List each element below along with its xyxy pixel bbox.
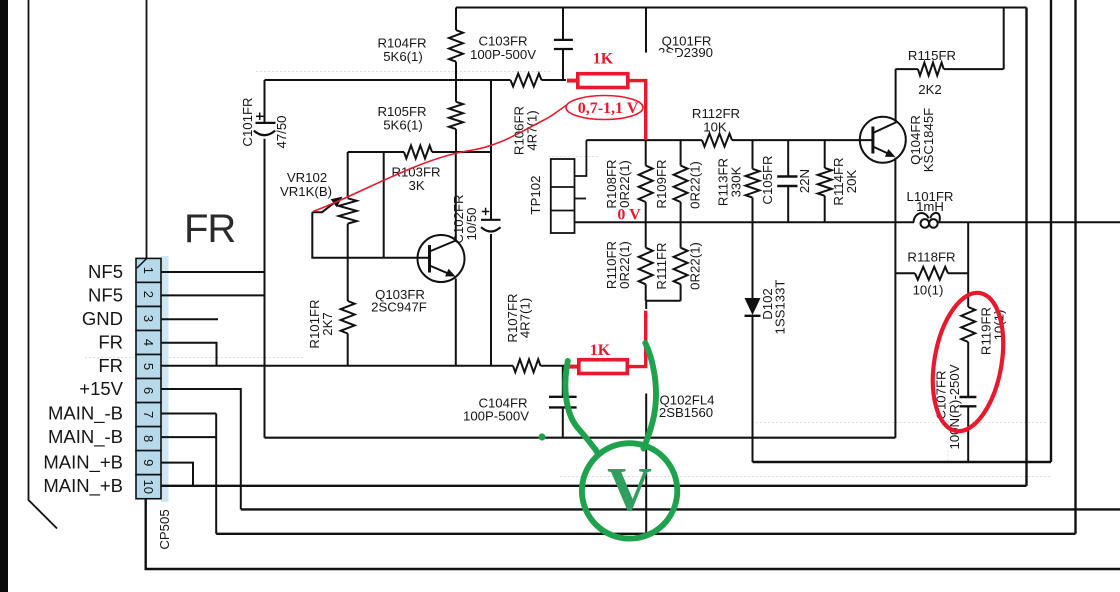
svg-text:FR: FR: [98, 332, 123, 353]
wire pin6 +15V: [161, 389, 241, 509]
wire MAIN_-B net bottom: [216, 533, 1075, 535]
svg-text:C105FR: C105FR: [760, 155, 775, 204]
inductor L101: [914, 213, 940, 228]
annotation ellipse 0,7-1,1 V: [566, 96, 643, 120]
capacitor C103: [554, 8, 573, 81]
wire pin1 NF5: [161, 271, 265, 273]
wire pin9 MAIN_+B: [161, 463, 193, 486]
svg-text:20K: 20K: [844, 170, 859, 194]
resistor R104: [449, 8, 463, 81]
wire node line y152: [348, 151, 404, 153]
capacitor C105: [777, 140, 797, 222]
border frame bar left: [0, 0, 8, 592]
annotation red wire top: [628, 81, 646, 141]
svg-text:0 V: 0 V: [617, 207, 641, 224]
wire pin5 FR line: [161, 365, 513, 367]
svg-text:4R7(1): 4R7(1): [518, 298, 533, 338]
svg-text:R118FR: R118FR: [907, 250, 955, 265]
svg-text:FR: FR: [184, 207, 235, 251]
svg-text:100P-500V: 100P-500V: [470, 47, 536, 62]
svg-text:1mH: 1mH: [916, 199, 944, 214]
svg-text:10: 10: [141, 479, 156, 493]
wire lower net to D102 C107: [753, 461, 1052, 463]
svg-text:3K: 3K: [409, 178, 425, 193]
capacitor C104: [549, 366, 577, 438]
annotation green probe lead left: [565, 361, 597, 453]
svg-text:C101FR: C101FR: [240, 97, 255, 146]
annotation voltmeter circle: [582, 443, 677, 538]
annotation white box 1: [566, 53, 677, 106]
wire pin8 MAIN_-B: [161, 436, 216, 438]
wire NF5 bottom line: [265, 437, 896, 439]
annotation pointer curve to VR102: [313, 105, 568, 212]
wire R101 to FR line: [347, 334, 349, 366]
svg-text:FR: FR: [98, 355, 123, 376]
polarity plus C101: [256, 113, 264, 121]
wire top supply bus: [456, 7, 1027, 9]
wire 0V mid rail: [575, 221, 915, 223]
svg-text:100P-500V: 100P-500V: [463, 409, 529, 424]
annotation red resistor 1K top body: [578, 74, 628, 88]
svg-text:NF5: NF5: [88, 284, 123, 305]
annotation red resistor 1K top stub: [567, 79, 577, 83]
svg-text:2K2: 2K2: [918, 82, 941, 97]
wire riser x1075: [1074, 0, 1076, 534]
resistor R119: [961, 222, 975, 397]
svg-text:9: 9: [141, 459, 156, 466]
svg-text:22N: 22N: [797, 169, 812, 193]
svg-text:R111FR: R111FR: [654, 242, 669, 289]
svg-text:2: 2: [141, 291, 156, 298]
wire R106 to annotation: [542, 79, 569, 81]
svg-text:MAIN_-B: MAIN_-B: [48, 403, 123, 425]
annotation white box 2: [568, 309, 655, 394]
svg-text:1: 1: [141, 267, 156, 274]
svg-text:VR1K(B): VR1K(B): [280, 184, 332, 199]
svg-text:5K6(1): 5K6(1): [383, 118, 423, 133]
svg-text:8: 8: [141, 435, 156, 442]
polarity plus C102: [482, 208, 490, 216]
wire NF5 top horizontal: [265, 79, 511, 81]
wire pin4 FR: [161, 343, 217, 366]
wire +15V net bottom: [241, 508, 1120, 510]
svg-text:1K: 1K: [590, 342, 611, 359]
capacitor C107: [960, 397, 977, 462]
wire base node drop: [383, 152, 385, 258]
svg-text:MAIN_+B: MAIN_+B: [43, 475, 123, 497]
annotation red resistor 1K bottom body: [579, 360, 628, 374]
svg-text:CP505: CP505: [157, 509, 172, 549]
wire pin3 GND stub: [161, 318, 218, 320]
svg-text:2K7: 2K7: [320, 312, 335, 335]
annotation red resistor 1K bottom stub: [569, 365, 578, 369]
potentiometer VR102: [312, 152, 356, 301]
resistor R109: [674, 140, 688, 222]
svg-text:VR102: VR102: [287, 170, 327, 185]
wire pin7 MAIN_-B: [161, 413, 216, 415]
wire Q104 emitter drop: [894, 158, 896, 438]
svg-text:GND: GND: [82, 308, 123, 329]
wire faint region boundary top-left: [85, 72, 1050, 477]
svg-text:0R22(1): 0R22(1): [617, 241, 632, 289]
wire shield ground: [146, 499, 1120, 569]
resistor R107: [513, 359, 541, 372]
svg-text:2SB1560: 2SB1560: [659, 405, 713, 420]
resistor R115: [895, 8, 1003, 76]
wire base bus right: [732, 139, 873, 141]
svg-text:5K6(1): 5K6(1): [383, 49, 423, 64]
wire pin2 NF5: [161, 294, 265, 296]
wire Q103 base line: [348, 257, 430, 259]
resistor R101: [341, 301, 355, 334]
resistor R105: [449, 80, 463, 152]
wire NF5 riser: [264, 80, 266, 123]
svg-text:5: 5: [141, 363, 156, 370]
diode D102: [752, 222, 754, 462]
svg-text:KSC1845F: KSC1845F: [921, 108, 936, 173]
svg-text:1SS133T: 1SS133T: [773, 280, 788, 335]
connector CP505 highlight stripe: [161, 256, 169, 502]
svg-text:10/50: 10/50: [464, 207, 479, 240]
resistor R106: [511, 74, 542, 87]
svg-text:10K: 10K: [703, 120, 727, 135]
wire MAIN_-B riser: [215, 414, 217, 534]
resistor R114: [818, 140, 832, 222]
resistor R103: [404, 146, 432, 159]
svg-text:4R7(1): 4R7(1): [525, 110, 540, 150]
capacitor C102: [481, 80, 501, 366]
svg-text:6: 6: [141, 387, 156, 394]
resistor R108: [639, 140, 653, 222]
annotation red wire bottom: [627, 311, 646, 367]
svg-text:V: V: [607, 456, 652, 524]
connector CP505 body: [136, 258, 161, 498]
svg-text:0R22(1): 0R22(1): [617, 160, 632, 208]
svg-text:MAIN_+B: MAIN_+B: [43, 452, 123, 474]
svg-text:R115FR: R115FR: [908, 48, 956, 63]
svg-text:2SC947F: 2SC947F: [371, 300, 427, 315]
wire FR line right of R107: [541, 365, 569, 367]
wire riser x1051: [1050, 0, 1052, 462]
transistor Q103: [418, 152, 465, 366]
resistor R111: [674, 222, 688, 300]
annotation red ellipse around R119 C107: [923, 287, 1013, 437]
transistor Q104: [860, 69, 906, 163]
svg-text:R109FR: R109FR: [654, 159, 669, 208]
resistor R112: [702, 134, 732, 147]
resistor R113: [746, 140, 760, 222]
wire Q101 collector stub: [645, 8, 647, 53]
capacitor C101: [254, 123, 276, 135]
svg-text:MAIN_-B: MAIN_-B: [48, 426, 123, 448]
svg-text:0R22(1): 0R22(1): [688, 242, 703, 290]
wire left bracket: [29, 0, 58, 529]
wire connector top lead: [146, 0, 148, 258]
svg-text:+15V: +15V: [79, 378, 123, 399]
annotation green dot: [538, 433, 545, 440]
wire R110 R111 bottom rail: [646, 300, 681, 302]
svg-text:0,7-1,1 V: 0,7-1,1 V: [578, 100, 639, 117]
svg-text:3: 3: [141, 315, 156, 322]
svg-text:7: 7: [141, 411, 156, 418]
svg-text:NF5: NF5: [88, 261, 123, 282]
svg-text:TP102: TP102: [528, 176, 543, 215]
svg-text:4: 4: [141, 339, 156, 346]
svg-text:10(1): 10(1): [913, 283, 944, 298]
wire pin10 MAIN_+B net: [161, 485, 1027, 487]
wire MAIN_+B riser: [1025, 8, 1027, 486]
svg-text:0R22(1): 0R22(1): [688, 161, 703, 209]
resistor R110: [639, 222, 653, 300]
wire VR102 wiper leg: [312, 212, 347, 258]
wire Q102 branch: [645, 301, 647, 534]
test point TP102: [551, 140, 587, 233]
wire base bus: [586, 139, 702, 141]
annotation green probe lead right: [644, 343, 657, 449]
svg-text:330K: 330K: [729, 166, 744, 197]
svg-text:47/50: 47/50: [274, 115, 289, 148]
svg-text:1K: 1K: [593, 51, 614, 68]
connector pin 1 key diagonal: [137, 259, 147, 268]
resistor R118: [895, 267, 968, 280]
svg-text:100N(R)-250V: 100N(R)-250V: [947, 364, 962, 449]
